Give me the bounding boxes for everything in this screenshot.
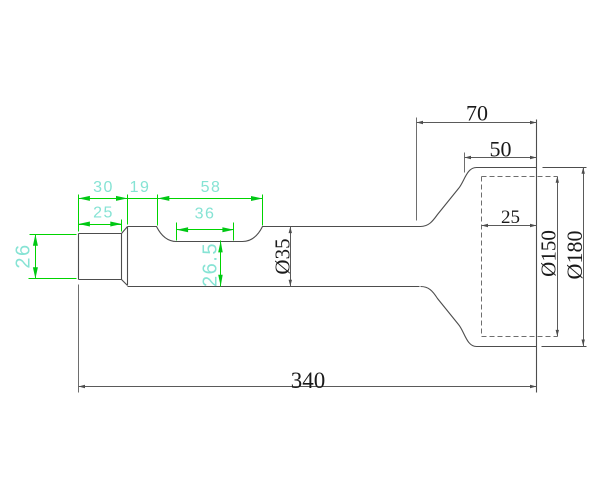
part outline: head right edge (with extensions up for 70/50 and down for 340): [536, 120, 538, 393]
chain arrows: [78, 196, 262, 201]
dimension 25 (head) line and arrows: [482, 225, 537, 227]
dimension 26 extension lines: [29, 235, 77, 279]
svg-text:26: 26: [13, 243, 35, 268]
dimension chain 30/19/58 line: [79, 198, 263, 200]
dimension 26 arrows: [33, 234, 38, 279]
dimension 50 line and arrows: [465, 157, 537, 159]
dimension 36 line: [177, 229, 234, 231]
svg-text:Ø180: Ø180: [562, 231, 587, 280]
dimension 340 line and arrows: [79, 386, 537, 388]
svg-text:70: 70: [466, 101, 488, 126]
dimension 26.5 arrows: [218, 241, 223, 286]
part outline: shaft top edge with groove: [128, 227, 421, 242]
part outline: head bottom edge: [477, 346, 587, 348]
dimension 25 (small cylinder) extension line: [121, 220, 123, 232]
svg-text:30: 30: [93, 179, 114, 196]
dimension phi150 line and arrows: [557, 177, 559, 337]
dimension 25 arrows: [78, 222, 121, 227]
svg-text:25: 25: [93, 205, 114, 222]
part outline: chamfer to shaft: [122, 227, 128, 286]
extension line: 50 left: [464, 153, 466, 173]
hidden hole: dashed rectangle phi150: [482, 177, 558, 337]
svg-text:Ø150: Ø150: [537, 230, 561, 277]
extension line: 70 left: [416, 118, 418, 221]
svg-text:340: 340: [291, 368, 326, 393]
dimension 36 arrows: [177, 227, 234, 232]
dimension phi180 line and arrows: [583, 168, 585, 347]
svg-text:50: 50: [490, 137, 512, 162]
part outline: shaft bottom edge: [128, 286, 420, 288]
dimension 70 line and arrows: [417, 122, 537, 124]
svg-text:58: 58: [201, 179, 222, 196]
svg-text:26.5: 26.5: [200, 242, 222, 287]
svg-text:Ø35: Ø35: [271, 238, 295, 274]
dimension 26.5 line: [220, 241, 222, 287]
part outline: head top edge: [477, 167, 587, 169]
svg-text:25: 25: [501, 207, 520, 228]
part outline: small end cylinder: [79, 234, 122, 280]
part outline: flare S-curve bottom: [421, 287, 477, 347]
dimension phi35 line and arrows: [290, 227, 292, 287]
extension line: left end of 340: [78, 285, 80, 393]
dimension 36 extension lines: [177, 223, 234, 241]
svg-text:19: 19: [130, 179, 151, 196]
svg-text:36: 36: [195, 206, 216, 223]
green extension lines for 30/19/58 chain: [79, 195, 263, 232]
dimension 26 line: [35, 235, 37, 279]
part outline: flare S-curve top: [421, 168, 477, 227]
dimension 25 line: [79, 224, 122, 226]
